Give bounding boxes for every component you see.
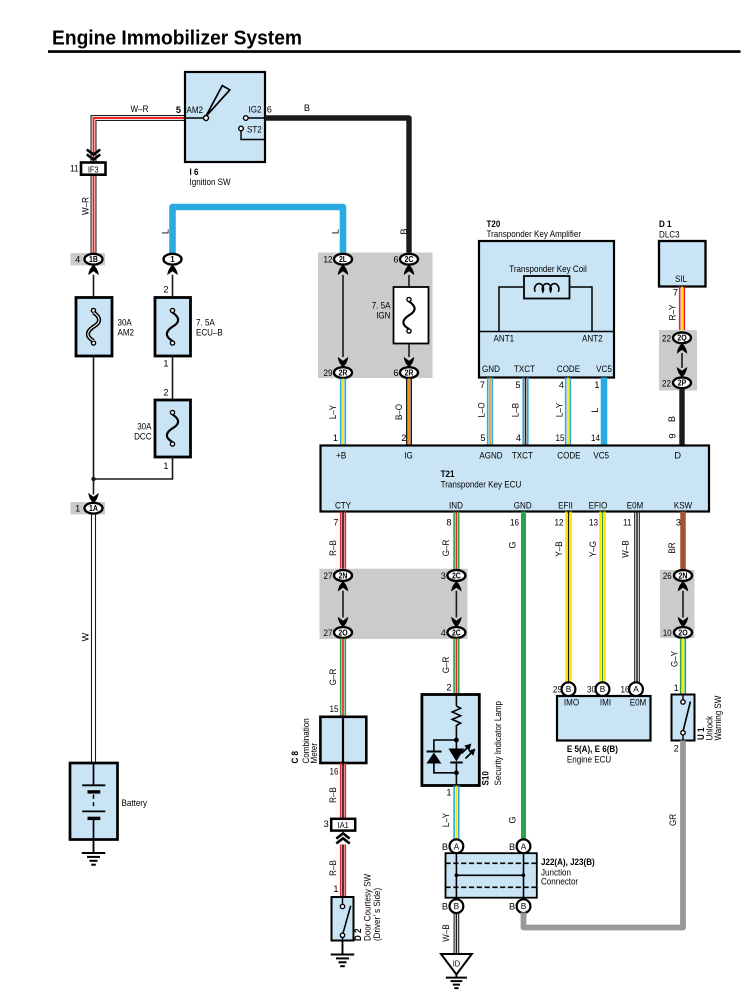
ECU T21 Transponder Key ECU bbox=[321, 446, 710, 512]
svg-text:W: W bbox=[81, 632, 91, 641]
wire W from 1A to battery bbox=[92, 514, 96, 763]
connector 2R left bbox=[324, 367, 353, 378]
svg-text:ANT2: ANT2 bbox=[582, 334, 603, 344]
connector IA1 bbox=[324, 819, 356, 831]
svg-text:B: B bbox=[454, 901, 460, 911]
resistor in S10 bbox=[452, 695, 460, 741]
wire G from T21 GND to junction connector bbox=[508, 512, 524, 840]
svg-text:1A: 1A bbox=[89, 504, 98, 513]
svg-text:11: 11 bbox=[623, 518, 631, 528]
connector 1 bbox=[164, 254, 182, 265]
svg-text:B: B bbox=[304, 103, 310, 113]
wire L-O from T20 GND to T21 AGND bbox=[476, 378, 492, 446]
LED in S10 bbox=[448, 740, 464, 773]
combination meter C8 bbox=[320, 717, 366, 763]
label L left bbox=[161, 229, 171, 234]
svg-text:A: A bbox=[633, 684, 639, 694]
wire G-R from 2C to S10 bbox=[441, 638, 459, 694]
svg-text:ANT1: ANT1 bbox=[494, 334, 515, 344]
svg-text:15: 15 bbox=[330, 704, 339, 714]
svg-text:Y–B: Y–B bbox=[554, 541, 564, 556]
svg-text:2L: 2L bbox=[339, 255, 347, 264]
svg-text:10: 10 bbox=[663, 628, 672, 638]
svg-text:W–R: W–R bbox=[131, 104, 149, 114]
svg-text:IMI: IMI bbox=[600, 698, 611, 708]
arrow above 2O meter bbox=[338, 617, 349, 627]
arrow below 2C bbox=[404, 265, 415, 275]
svg-text:4: 4 bbox=[516, 433, 521, 443]
svg-text:30A: 30A bbox=[118, 318, 133, 328]
arrow below 2N meter bbox=[338, 581, 349, 591]
svg-text:KSW: KSW bbox=[674, 501, 693, 511]
svg-text:7. 5A: 7. 5A bbox=[372, 301, 392, 311]
svg-text:IGN: IGN bbox=[376, 311, 390, 321]
wire 2C to fuse IGN bbox=[408, 275, 410, 287]
svg-text:CTY: CTY bbox=[335, 501, 351, 511]
wire fuse ECU-B to fuse DCC bbox=[163, 356, 172, 400]
svg-text:L–B: L–B bbox=[510, 403, 520, 417]
fuse 7.5A IGN bbox=[372, 287, 429, 344]
amplifier T20 box bbox=[479, 241, 614, 378]
label B vertical bbox=[399, 228, 409, 234]
svg-text:IF3: IF3 bbox=[88, 164, 99, 174]
security indicator lamp S10 box bbox=[422, 695, 479, 786]
svg-text:L: L bbox=[161, 229, 171, 234]
svg-text:VC5: VC5 bbox=[596, 364, 612, 374]
svg-text:Transponder Key Amplifier: Transponder Key Amplifier bbox=[487, 229, 582, 239]
svg-text:B: B bbox=[566, 684, 572, 694]
svg-text:1: 1 bbox=[333, 884, 338, 894]
svg-text:6: 6 bbox=[393, 368, 398, 378]
svg-text:CODE: CODE bbox=[557, 451, 580, 461]
svg-text:Door Courtesy SW: Door Courtesy SW bbox=[363, 874, 373, 941]
svg-text:L–O: L–O bbox=[476, 402, 486, 417]
svg-text:W–B: W–B bbox=[620, 540, 630, 557]
label W-R horizontal bbox=[131, 104, 149, 114]
svg-text:Engine ECU: Engine ECU bbox=[567, 755, 611, 765]
arrow below 1B bbox=[88, 265, 99, 275]
wire Y-G from T21 EFIO to engine ECU IMI bbox=[588, 512, 605, 683]
svg-text:TXCT: TXCT bbox=[514, 364, 535, 374]
svg-text:Warning SW: Warning SW bbox=[713, 695, 723, 740]
connector 2N meter bbox=[324, 570, 353, 581]
svg-text:Security Indicator Lamp: Security Indicator Lamp bbox=[493, 701, 503, 786]
ground below D2 bbox=[331, 941, 355, 967]
svg-text:E0M: E0M bbox=[630, 698, 647, 708]
connector D1 DLC3 box bbox=[659, 241, 706, 287]
arrow above 1A bbox=[88, 493, 99, 503]
svg-text:2R: 2R bbox=[405, 369, 414, 378]
wire 2N to 2O unlock bbox=[682, 591, 684, 618]
svg-text:7: 7 bbox=[673, 288, 678, 298]
junction block gray 2Q 2P bbox=[659, 330, 697, 391]
svg-text:R–B: R–B bbox=[328, 860, 338, 876]
wire GR from U1 to junction connector bbox=[524, 741, 684, 928]
connector IF3 bbox=[70, 163, 105, 175]
connector 2Q bbox=[662, 332, 691, 343]
svg-text:D 1: D 1 bbox=[659, 219, 672, 229]
svg-text:1: 1 bbox=[163, 461, 168, 471]
wire R-B from IA1 to D2 bbox=[328, 845, 345, 898]
lamp S10 labels bbox=[480, 701, 502, 786]
svg-text:E0M: E0M bbox=[627, 501, 644, 511]
arrow below 2Q bbox=[677, 343, 688, 353]
svg-text:VC5: VC5 bbox=[593, 451, 609, 461]
wire L-Y from 2R to T21 +B bbox=[328, 379, 345, 446]
svg-text:ECU–B: ECU–B bbox=[196, 328, 223, 338]
svg-text:BR: BR bbox=[667, 542, 677, 554]
battery bbox=[70, 763, 147, 840]
svg-text:6: 6 bbox=[267, 105, 272, 115]
door courtesy switch D2 bbox=[332, 897, 354, 941]
svg-text:1B: 1B bbox=[89, 255, 98, 264]
svg-text:2P: 2P bbox=[678, 379, 687, 388]
svg-text:G–R: G–R bbox=[328, 668, 338, 685]
labels U1 bbox=[696, 695, 723, 740]
svg-text:D: D bbox=[674, 451, 681, 461]
wire L-Y from T20 CODE to T21 CODE bbox=[554, 378, 570, 446]
wire 2C to 2C lamp bbox=[455, 591, 457, 618]
wire 2N to 2O meter bbox=[342, 591, 344, 618]
wire 2Q to 2P bbox=[681, 353, 683, 368]
svg-text:14: 14 bbox=[591, 433, 600, 443]
wire W-B from junction connector to ground ID bbox=[441, 913, 459, 954]
svg-text:IA1: IA1 bbox=[338, 820, 349, 830]
engine ECU node B IMO bbox=[553, 682, 575, 696]
svg-text:2: 2 bbox=[163, 285, 168, 295]
svg-text:5: 5 bbox=[480, 433, 485, 443]
ground symbol ID bbox=[446, 975, 467, 989]
svg-text:29: 29 bbox=[324, 368, 333, 378]
arrow below 2N unlock bbox=[678, 581, 689, 591]
junction block gray (ignition) bbox=[318, 253, 433, 379]
arrow into IF3 bbox=[87, 150, 100, 160]
wire 2L to 2R bbox=[342, 275, 344, 357]
svg-text:B: B bbox=[509, 842, 515, 852]
svg-text:2Q: 2Q bbox=[677, 334, 686, 343]
wire connector 1 to fuse ECU-B bbox=[163, 275, 172, 298]
svg-text:2N: 2N bbox=[339, 571, 348, 580]
wire fuse AM2 to node 1A bbox=[93, 356, 95, 495]
svg-text:G: G bbox=[508, 541, 518, 548]
engine ECU node B IMI bbox=[587, 682, 609, 696]
svg-text:L: L bbox=[331, 229, 341, 234]
svg-text:1: 1 bbox=[446, 788, 451, 798]
svg-text:26: 26 bbox=[663, 571, 672, 581]
svg-text:AM2: AM2 bbox=[118, 328, 135, 338]
connector 1A bbox=[71, 502, 106, 514]
svg-text:B: B bbox=[442, 842, 448, 852]
svg-text:G–R: G–R bbox=[441, 539, 451, 556]
engine ECU node A E0M bbox=[621, 682, 643, 696]
connector 2R right bbox=[393, 367, 418, 378]
svg-text:GR: GR bbox=[668, 814, 678, 826]
svg-text:27: 27 bbox=[324, 571, 333, 581]
unlock warning switch U1 bbox=[672, 695, 695, 741]
svg-text:EFIO: EFIO bbox=[589, 501, 608, 511]
arrow above 2R left bbox=[338, 357, 349, 367]
svg-text:W–B: W–B bbox=[441, 924, 451, 941]
junction block gray (meter) bbox=[320, 569, 468, 639]
svg-text:2: 2 bbox=[401, 433, 406, 443]
svg-text:2O: 2O bbox=[678, 628, 687, 637]
svg-text:L: L bbox=[590, 407, 600, 412]
svg-text:12: 12 bbox=[324, 255, 333, 265]
wire G-R from T21 IND to 2C bbox=[441, 512, 459, 571]
svg-text:B: B bbox=[521, 901, 527, 911]
svg-text:4: 4 bbox=[75, 255, 80, 265]
wire R-B from T21 CTY to 2N bbox=[328, 512, 345, 571]
svg-text:GND: GND bbox=[514, 501, 532, 511]
svg-text:2R: 2R bbox=[339, 369, 348, 378]
svg-text:5: 5 bbox=[515, 380, 520, 390]
svg-text:DLC3: DLC3 bbox=[659, 230, 680, 240]
labels D2 bbox=[353, 874, 382, 941]
svg-text:S10: S10 bbox=[480, 771, 490, 785]
svg-text:W–R: W–R bbox=[81, 197, 91, 215]
connector 2L bbox=[324, 254, 353, 265]
svg-text:2: 2 bbox=[674, 744, 679, 754]
svg-text:IMO: IMO bbox=[564, 698, 579, 708]
svg-text:27: 27 bbox=[324, 628, 333, 638]
ground below battery bbox=[82, 840, 106, 865]
svg-text:1: 1 bbox=[674, 683, 679, 693]
connector 1B bbox=[71, 253, 106, 265]
wire Y-B from T21 EFI to engine ECU IMO bbox=[554, 512, 571, 683]
svg-text:R–Y: R–Y bbox=[667, 305, 677, 321]
transponder key coil bbox=[524, 276, 570, 299]
svg-text:2C: 2C bbox=[452, 571, 461, 580]
amplifier T20 label bbox=[487, 219, 582, 239]
svg-text:B–O: B–O bbox=[394, 404, 404, 420]
title Engine Immobilizer System bbox=[48, 27, 741, 53]
junction connector J22 J23 box bbox=[446, 853, 537, 898]
svg-text:L–Y: L–Y bbox=[441, 813, 451, 827]
svg-text:G–Y: G–Y bbox=[669, 651, 679, 667]
wire B from I6 IG2 pin 6 to connector 2C bbox=[265, 118, 409, 254]
connector D1 label bbox=[659, 219, 680, 240]
svg-text:11: 11 bbox=[70, 164, 78, 174]
arrow below IA1 bbox=[336, 833, 349, 843]
svg-text:G–R: G–R bbox=[441, 656, 451, 673]
arrow above 2O unlock bbox=[678, 617, 689, 627]
connector 2C lamp lower bbox=[441, 627, 466, 638]
svg-text:22: 22 bbox=[662, 333, 671, 343]
connector 2O meter bbox=[324, 627, 353, 638]
labels junction connector bbox=[541, 857, 595, 887]
svg-text:L–Y: L–Y bbox=[328, 405, 338, 419]
labels engine ECU bbox=[567, 744, 618, 765]
arrow below connector 1 bbox=[167, 265, 178, 275]
svg-text:Y–G: Y–G bbox=[588, 541, 598, 557]
svg-text:5: 5 bbox=[176, 105, 181, 115]
node bottom of diodes bbox=[454, 770, 459, 785]
svg-text:Transponder Key ECU: Transponder Key ECU bbox=[441, 480, 522, 490]
wire B-O from 2R to T21 IG bbox=[394, 379, 411, 446]
svg-text:1: 1 bbox=[75, 504, 80, 514]
svg-text:12: 12 bbox=[555, 518, 564, 528]
svg-text:8: 8 bbox=[446, 518, 451, 528]
node top of diodes bbox=[454, 738, 459, 743]
connector 2O unlock bbox=[663, 627, 692, 638]
svg-text:7: 7 bbox=[333, 518, 338, 528]
wire W-R from I6 AM2 pin 5 to connector 1B bbox=[91, 116, 185, 254]
label W bbox=[81, 632, 91, 641]
wire fuse DCC to node 1A bbox=[94, 457, 173, 479]
arrow above 2R right bbox=[404, 357, 415, 367]
connector 2C bbox=[393, 254, 418, 265]
svg-text:4: 4 bbox=[441, 628, 446, 638]
label L right bbox=[331, 229, 341, 234]
svg-text:C 8: C 8 bbox=[290, 751, 300, 764]
wire L-Y from S10 to junction connector bbox=[441, 786, 459, 840]
svg-text:TXCT: TXCT bbox=[512, 451, 533, 461]
svg-text:R–B: R–B bbox=[328, 540, 338, 556]
svg-text:B: B bbox=[600, 684, 606, 694]
fuse 30A AM2 bbox=[76, 298, 134, 357]
svg-text:Battery: Battery bbox=[122, 798, 148, 808]
svg-text:2: 2 bbox=[446, 683, 451, 693]
svg-text:1: 1 bbox=[333, 433, 338, 443]
svg-text:T20: T20 bbox=[487, 219, 501, 229]
svg-text:22: 22 bbox=[662, 378, 671, 388]
arrow below 2C lamp bbox=[451, 581, 462, 591]
svg-text:7: 7 bbox=[480, 380, 485, 390]
svg-text:B: B bbox=[667, 416, 677, 422]
svg-text:4: 4 bbox=[559, 380, 564, 390]
svg-text:L–Y: L–Y bbox=[554, 403, 564, 417]
svg-text:ID: ID bbox=[453, 959, 460, 969]
connector 2C lamp upper bbox=[441, 570, 466, 581]
junction connector node A left bbox=[442, 839, 463, 853]
junction connector node A right bbox=[509, 839, 530, 853]
wire B from 2P to T21 D bbox=[667, 388, 682, 445]
svg-text:G: G bbox=[508, 816, 518, 823]
svg-text:J22(A), J23(B): J22(A), J23(B) bbox=[541, 857, 595, 867]
wire G-Y from 2O to U1 bbox=[669, 638, 685, 694]
svg-text:6: 6 bbox=[393, 255, 398, 265]
svg-text:3: 3 bbox=[441, 571, 446, 581]
svg-text:1: 1 bbox=[163, 359, 168, 369]
arrow above 2C lamp lower bbox=[451, 617, 462, 627]
ignition switch I6 bbox=[176, 72, 272, 162]
junction connector node B left bbox=[442, 899, 463, 913]
connector 2N unlock bbox=[663, 570, 692, 581]
svg-text:1: 1 bbox=[594, 380, 599, 390]
svg-text:DCC: DCC bbox=[134, 432, 152, 442]
svg-text:IG2: IG2 bbox=[249, 105, 262, 115]
junction connector node B right bbox=[509, 899, 530, 913]
svg-text:13: 13 bbox=[589, 518, 598, 528]
svg-text:2N: 2N bbox=[679, 571, 688, 580]
svg-text:+B: +B bbox=[336, 451, 346, 461]
svg-text:(Driver’ s Side): (Driver’ s Side) bbox=[372, 888, 382, 941]
svg-text:Meter: Meter bbox=[309, 743, 319, 764]
svg-text:Engine Immobilizer System: Engine Immobilizer System bbox=[52, 27, 302, 50]
ground point ID bbox=[441, 954, 472, 975]
junction node at 1A column bbox=[91, 477, 95, 481]
wire G-R from 2O to C8 bbox=[328, 638, 345, 717]
junction block gray (unlock SW) bbox=[660, 570, 695, 638]
wire W-B from T21 E0M to engine ECU E0M bbox=[620, 512, 639, 683]
svg-text:AM2: AM2 bbox=[187, 105, 204, 115]
svg-text:Transponder Key Coil: Transponder Key Coil bbox=[509, 264, 587, 274]
label I6 bbox=[190, 167, 231, 187]
svg-text:15: 15 bbox=[556, 433, 565, 443]
wire R-B from C8 to IA1 bbox=[328, 763, 345, 819]
wire R-Y from D1 SIL to 2Q bbox=[667, 287, 684, 333]
svg-text:2: 2 bbox=[163, 388, 168, 398]
svg-text:I 6: I 6 bbox=[190, 167, 199, 177]
label B horizontal bbox=[304, 103, 310, 113]
svg-text:3: 3 bbox=[676, 518, 681, 528]
svg-text:2C: 2C bbox=[452, 628, 461, 637]
wire L from T20 VC5 to T21 VC5 bbox=[590, 378, 604, 446]
svg-text:16: 16 bbox=[330, 767, 339, 777]
wire fuse IGN to 2R bbox=[408, 344, 410, 358]
svg-text:D 2: D 2 bbox=[353, 929, 363, 942]
svg-text:CODE: CODE bbox=[557, 364, 580, 374]
svg-text:7. 5A: 7. 5A bbox=[196, 318, 216, 328]
svg-text:Ignition SW: Ignition SW bbox=[190, 177, 231, 187]
svg-text:Connector: Connector bbox=[541, 877, 578, 887]
svg-text:16: 16 bbox=[510, 518, 519, 528]
wire 1B to fuse AM2 bbox=[93, 275, 95, 298]
svg-text:SIL: SIL bbox=[675, 274, 687, 284]
svg-text:3: 3 bbox=[324, 819, 329, 829]
svg-text:E 5(A), E 6(B): E 5(A), E 6(B) bbox=[567, 744, 618, 754]
svg-text:AGND: AGND bbox=[479, 451, 503, 461]
wire L from connector 1 to connector 2L bbox=[173, 207, 344, 254]
arrow above 2P bbox=[677, 367, 688, 377]
fuse 7.5A ECU-B bbox=[155, 298, 223, 357]
svg-text:IND: IND bbox=[449, 501, 463, 511]
svg-text:B: B bbox=[399, 228, 409, 234]
svg-text:2O: 2O bbox=[338, 628, 347, 637]
diode D-left in S10 bbox=[426, 740, 456, 773]
fuse 30A DCC bbox=[134, 400, 190, 457]
LED flash arrows bbox=[462, 744, 476, 759]
svg-text:GND: GND bbox=[482, 364, 500, 374]
svg-text:2C: 2C bbox=[405, 255, 414, 264]
meter C8 labels bbox=[290, 718, 319, 763]
svg-text:A: A bbox=[521, 841, 527, 851]
wire L-B from T20 TXCT to T21 TXCT bbox=[510, 378, 527, 446]
svg-text:30A: 30A bbox=[137, 422, 152, 432]
svg-text:ST2: ST2 bbox=[247, 125, 262, 135]
svg-text:A: A bbox=[454, 841, 460, 851]
svg-text:EFII: EFII bbox=[558, 501, 573, 511]
svg-text:1: 1 bbox=[170, 255, 175, 264]
svg-text:9: 9 bbox=[668, 433, 678, 438]
svg-text:T21: T21 bbox=[441, 469, 455, 479]
arrow below 2L bbox=[338, 265, 349, 275]
connector 2P bbox=[662, 377, 691, 388]
engine ECU E5 E6 box bbox=[557, 696, 651, 741]
svg-text:B: B bbox=[509, 902, 515, 912]
svg-text:IG: IG bbox=[404, 451, 413, 461]
label W-R vertical bbox=[81, 197, 91, 215]
wire BR from T21 KSW to 2N bbox=[667, 512, 683, 571]
svg-text:R–B: R–B bbox=[328, 787, 338, 803]
svg-text:B: B bbox=[442, 902, 448, 912]
